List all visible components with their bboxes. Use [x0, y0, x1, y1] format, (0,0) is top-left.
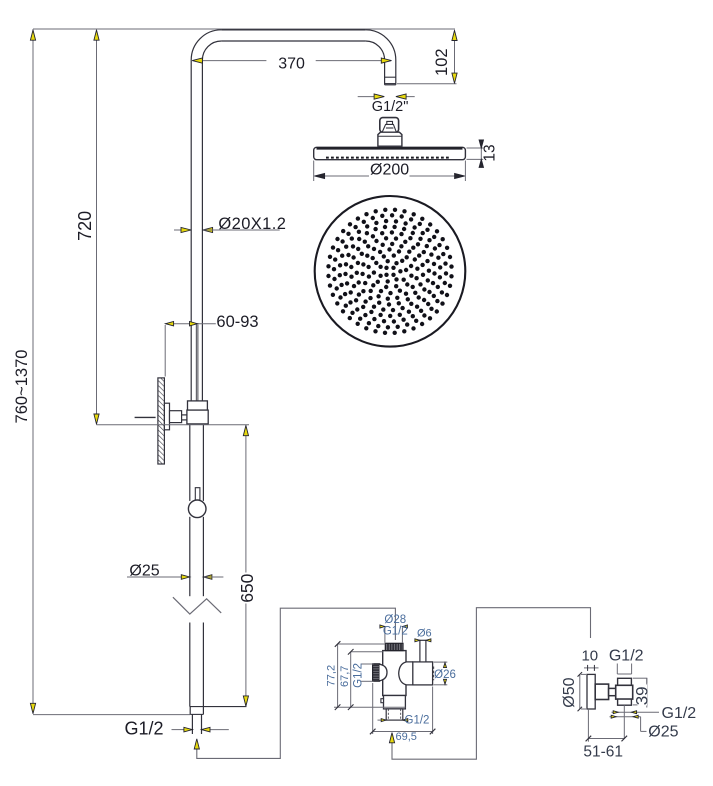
svg-text:Ø25: Ø25 — [648, 723, 678, 740]
svg-text:69,5: 69,5 — [395, 731, 416, 743]
svg-text:39: 39 — [632, 686, 651, 705]
svg-text:G1/2: G1/2 — [405, 714, 430, 726]
svg-text:Ø20X1.2: Ø20X1.2 — [218, 215, 286, 233]
svg-text:Ø6: Ø6 — [417, 628, 432, 640]
svg-text:G1/2: G1/2 — [383, 626, 408, 638]
svg-text:760~1370: 760~1370 — [13, 350, 31, 424]
svg-text:Ø200: Ø200 — [370, 162, 409, 179]
svg-text:51-61: 51-61 — [583, 744, 623, 761]
svg-text:77,2: 77,2 — [325, 665, 337, 686]
svg-text:370: 370 — [278, 55, 305, 72]
svg-text:G1/2": G1/2" — [372, 99, 409, 115]
svg-text:720: 720 — [75, 211, 95, 241]
svg-text:Ø50: Ø50 — [561, 677, 578, 707]
svg-text:G1/2: G1/2 — [124, 719, 163, 739]
svg-text:Ø26: Ø26 — [434, 669, 456, 681]
svg-text:60-93: 60-93 — [216, 313, 258, 331]
svg-text:G1/2: G1/2 — [662, 705, 697, 722]
svg-text:G1/2: G1/2 — [609, 648, 644, 665]
svg-text:Ø28: Ø28 — [384, 614, 406, 626]
svg-text:13: 13 — [481, 144, 498, 161]
svg-text:10: 10 — [581, 648, 598, 665]
svg-text:650: 650 — [237, 573, 257, 602]
svg-text:102: 102 — [433, 48, 451, 76]
svg-text:67,7: 67,7 — [339, 666, 351, 687]
svg-text:G1/2: G1/2 — [353, 663, 365, 688]
svg-text:Ø25: Ø25 — [129, 562, 159, 579]
